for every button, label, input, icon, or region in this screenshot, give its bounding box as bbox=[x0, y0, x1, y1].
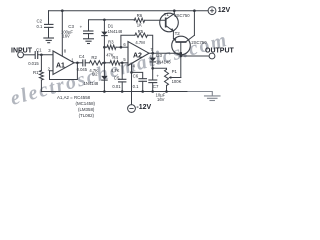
svg-text:C7: C7 bbox=[153, 84, 159, 89]
capacitor C1 bbox=[28, 48, 42, 66]
svg-text:100K: 100K bbox=[172, 79, 182, 84]
wire P1 bottom to rail bbox=[166, 86, 168, 92]
svg-text:C3: C3 bbox=[68, 24, 74, 29]
resistor R6 bbox=[134, 13, 144, 28]
wire A1 output bbox=[74, 62, 83, 64]
svg-text:16V: 16V bbox=[157, 97, 165, 102]
svg-text:D2: D2 bbox=[92, 72, 98, 77]
node feedback junction bbox=[120, 46, 123, 49]
svg-text:1N4148: 1N4148 bbox=[108, 29, 123, 34]
svg-text:2SC750: 2SC750 bbox=[191, 40, 207, 45]
svg-text:1K: 1K bbox=[137, 23, 142, 28]
capacitor C7 electrolytic bbox=[148, 73, 165, 101]
svg-text:D3: D3 bbox=[156, 53, 162, 58]
op-amp A1 bbox=[48, 48, 75, 75]
svg-text:0.01: 0.01 bbox=[112, 84, 121, 89]
wire C4 to R2 bbox=[85, 62, 89, 64]
wire T2 base column down to wiper bbox=[180, 42, 182, 78]
resistor R4 bbox=[110, 55, 120, 73]
wire net above: C3/D1/R6 line bbox=[89, 20, 135, 31]
node output/D3 junction bbox=[151, 52, 154, 55]
node C7/P1 junction bbox=[151, 67, 154, 70]
transistor T2 bbox=[172, 31, 208, 55]
svg-text:2SC750: 2SC750 bbox=[174, 13, 190, 18]
svg-text:47K: 47K bbox=[106, 52, 114, 57]
node pin4 branch bbox=[130, 71, 133, 74]
svg-text:R6: R6 bbox=[137, 13, 143, 18]
node C5 junction bbox=[121, 62, 124, 65]
svg-text:C1: C1 bbox=[36, 48, 42, 53]
svg-text:(MC1458): (MC1458) bbox=[76, 101, 96, 106]
node P1/rail junction bbox=[165, 90, 168, 93]
svg-text:+: + bbox=[80, 24, 83, 29]
svg-text:D1: D1 bbox=[108, 24, 114, 29]
svg-text:0.015: 0.015 bbox=[28, 61, 39, 66]
capacitor C4 bbox=[77, 54, 88, 72]
wire D1 to R3 node bbox=[103, 36, 105, 48]
resistor R3 bbox=[106, 39, 116, 57]
wire R3 left stub bbox=[104, 46, 107, 48]
wire A2 pin4 / -12V column bbox=[131, 64, 133, 105]
ground right bbox=[205, 96, 221, 101]
svg-text:C5: C5 bbox=[114, 75, 120, 80]
wire +12V top rail bbox=[49, 10, 209, 12]
wire pin8 of A1 bbox=[61, 11, 63, 56]
resistor R5 bbox=[135, 29, 148, 45]
ground under C3 bbox=[83, 39, 94, 44]
wire C6 to rail bbox=[142, 81, 144, 91]
wire T1 emitter to T2 emitter bbox=[172, 31, 174, 38]
svg-text:(TL082): (TL082) bbox=[79, 113, 95, 118]
svg-text:T2: T2 bbox=[175, 31, 181, 36]
svg-text:4.7K: 4.7K bbox=[111, 68, 120, 73]
svg-text:A1: A1 bbox=[56, 63, 65, 70]
wire node to P1 top bbox=[153, 68, 167, 69]
diode D3 bbox=[150, 53, 172, 64]
svg-text:OUTPUT: OUTPUT bbox=[205, 47, 235, 54]
svg-text:R5: R5 bbox=[138, 29, 144, 34]
svg-text:P1: P1 bbox=[172, 69, 178, 74]
wire A1 pin2 feedback loop to output bbox=[50, 63, 78, 80]
wire branch to C6 bbox=[132, 72, 143, 78]
node C7/rail junction bbox=[151, 90, 154, 93]
node C6/rail junction bbox=[141, 90, 144, 93]
wire C7 to rail bbox=[152, 83, 154, 92]
svg-text:1N4148: 1N4148 bbox=[156, 60, 171, 65]
svg-text:C2: C2 bbox=[37, 18, 43, 23]
svg-text:0.045: 0.045 bbox=[77, 67, 88, 72]
wire R3 to A2 pin6 bbox=[116, 46, 128, 48]
svg-text:A1,A2 = RC4558: A1,A2 = RC4558 bbox=[57, 95, 91, 100]
wire R6 to T1 base bbox=[145, 19, 166, 21]
wire R1 to bottom rail bbox=[40, 80, 42, 92]
resistor R1 bbox=[33, 70, 43, 80]
wire output bbox=[181, 55, 209, 57]
wire D1 top bbox=[103, 20, 105, 32]
svg-text:T1: T1 bbox=[164, 12, 170, 17]
node center column junction bbox=[103, 62, 106, 65]
node D1 top junction bbox=[103, 19, 106, 22]
power +12V bbox=[208, 7, 230, 15]
svg-text:1N4148: 1N4148 bbox=[84, 81, 99, 86]
wire T1 collector to rail bbox=[173, 11, 175, 14]
wire down center column to R2/R4 node bbox=[103, 47, 105, 63]
resistor R2 bbox=[89, 55, 102, 73]
node R3 left bbox=[103, 46, 106, 49]
wire C3 to ground bbox=[88, 34, 90, 39]
wire R5 right to output node bbox=[147, 35, 152, 53]
wire T2 collector to rail bbox=[193, 11, 195, 36]
wire feedback riser bbox=[121, 35, 135, 47]
wire A2 output to T2 base column bbox=[149, 52, 181, 54]
svg-text:12V: 12V bbox=[218, 7, 231, 14]
node output/feedback junction bbox=[76, 62, 79, 65]
node A1 pin8 junction on rail bbox=[61, 9, 64, 12]
output jack J2 bbox=[209, 53, 215, 59]
input jack J1 bbox=[18, 52, 24, 58]
wire D2 to rail bbox=[103, 80, 105, 91]
diode D2 bbox=[84, 63, 108, 86]
power -12V bbox=[128, 104, 152, 112]
note text block bbox=[57, 95, 96, 118]
svg-text:-12V: -12V bbox=[136, 104, 151, 111]
wire C2 to ground bbox=[48, 27, 50, 37]
transistor T1 bbox=[160, 12, 191, 32]
wire R2 to R4 bbox=[103, 62, 111, 64]
wire input to C1 bbox=[24, 54, 36, 56]
wire C1 to A1 pin3 bbox=[38, 54, 53, 56]
potentiometer P1 bbox=[165, 69, 182, 86]
svg-text:INPUT: INPUT bbox=[11, 48, 33, 55]
capacitor C3 electrolytic bbox=[61, 24, 94, 39]
capacitor C5 bbox=[112, 63, 126, 89]
svg-text:C4: C4 bbox=[79, 54, 85, 59]
diode D1 bbox=[101, 24, 123, 36]
wire C5 to rail bbox=[121, 82, 123, 92]
wire bottom rail gray segment to ground bbox=[188, 92, 212, 96]
svg-text:R3: R3 bbox=[108, 39, 114, 44]
node input/R1 junction bbox=[40, 54, 43, 57]
svg-text:0.1: 0.1 bbox=[37, 24, 43, 29]
wire R4 to A2 pin5 bbox=[120, 62, 128, 64]
node D2/rail junction bbox=[103, 90, 106, 93]
wire D3 to C7 node bbox=[152, 62, 154, 80]
op-amp A2 bbox=[128, 42, 153, 69]
ground under C2 bbox=[43, 38, 54, 43]
svg-text:C6: C6 bbox=[133, 73, 139, 78]
svg-text:A2: A2 bbox=[133, 52, 142, 59]
wire bottom rail bbox=[41, 91, 188, 93]
capacitor C2 bbox=[37, 18, 54, 29]
svg-text:R1: R1 bbox=[33, 70, 39, 75]
svg-text:4.7M: 4.7M bbox=[135, 40, 145, 45]
wire junction down to R1 bbox=[40, 55, 42, 71]
svg-text:R2: R2 bbox=[91, 55, 97, 60]
wire C2 drop from rail bbox=[48, 11, 50, 25]
svg-text:+: + bbox=[156, 73, 159, 78]
node C5/rail junction bbox=[121, 90, 124, 93]
capacitor C6 bbox=[133, 73, 147, 89]
svg-text:0.1: 0.1 bbox=[133, 84, 139, 89]
svg-text:16V: 16V bbox=[62, 34, 70, 39]
svg-text:(LM358): (LM358) bbox=[78, 107, 95, 112]
